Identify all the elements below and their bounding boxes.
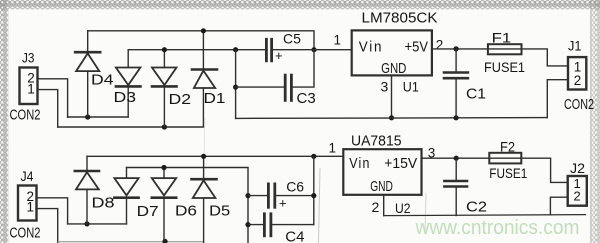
- svg-text:GND: GND: [370, 178, 393, 195]
- wire top rail' (D8/D5 cathodes to U2 Vin): [87, 155, 343, 157]
- wire rail B' (faint bottom rail): [58, 241, 204, 243]
- wire J1 pin2 to ground rail: [547, 80, 568, 118]
- connector J3: [10, 51, 41, 124]
- wire J2 pin2 to ground rail: [550, 197, 567, 215]
- svg-text:C5: C5: [283, 31, 301, 47]
- svg-text:U2: U2: [395, 200, 411, 216]
- svg-text:D1: D1: [204, 90, 226, 107]
- svg-text:2: 2: [436, 38, 444, 53]
- wire C6 right node vertical: [313, 156, 315, 224]
- regulator U2 UA7815: [329, 133, 436, 216]
- wire U1 output to fuse and J1 pin1: [432, 49, 568, 66]
- svg-text:+: +: [275, 48, 283, 63]
- node dot C6 left: [245, 193, 250, 198]
- node dot D6 top on rail2': [161, 165, 166, 170]
- node dot pin3 on ground rail: [389, 115, 394, 120]
- diode D8: [75, 156, 115, 224]
- wire rail2 (D3/D2 cathode rail to C5 left plate): [128, 49, 265, 51]
- svg-text:D5: D5: [209, 203, 230, 220]
- svg-text:2: 2: [574, 73, 582, 88]
- wire U2 pin2 GND down: [383, 195, 385, 216]
- decorative top border strip: [0, 0, 600, 10]
- capacitor C1: [444, 49, 486, 118]
- svg-text:D6: D6: [175, 203, 197, 220]
- svg-text:D4: D4: [91, 71, 114, 88]
- node dot C6 right node on rail': [311, 154, 316, 159]
- wire rail2' (D7/D6 cathode rail to left cap node): [127, 168, 249, 243]
- svg-text:D2: D2: [169, 91, 192, 108]
- svg-text:LM7805CK: LM7805CK: [362, 10, 438, 27]
- wire rail A' (D8/D7 anode rail): [68, 223, 127, 225]
- svg-text:F1: F1: [492, 29, 512, 45]
- node dot D1 cathode on top rail: [201, 28, 206, 33]
- node dot C5/C3 left node: [233, 47, 238, 52]
- svg-text:J3: J3: [22, 51, 35, 66]
- svg-text:C4: C4: [285, 228, 304, 243]
- diode D3: [114, 50, 141, 117]
- node dot D4 anode on rail A: [85, 114, 90, 119]
- svg-text:CON2: CON2: [10, 107, 41, 124]
- svg-text:J2: J2: [570, 160, 585, 176]
- wire rail B (D2/D1 anode rail): [58, 88, 204, 127]
- svg-text:D3: D3: [114, 89, 137, 106]
- svg-text:Vin: Vin: [349, 155, 371, 172]
- node dot D8 anode on rail A': [84, 221, 89, 226]
- svg-text:U1: U1: [403, 78, 419, 94]
- wire J4 pin1 down: [37, 209, 58, 243]
- node dot C1 bottom on ground rail: [454, 115, 459, 120]
- svg-text:CON2: CON2: [10, 224, 41, 241]
- svg-text:www.cntronics.com: www.cntronics.com: [415, 217, 580, 239]
- node dot C2 top: [454, 156, 459, 161]
- node dot C5 right node: [311, 47, 316, 52]
- svg-text:C3: C3: [297, 90, 316, 107]
- svg-text:J1: J1: [568, 37, 582, 53]
- wire top ground rail: [236, 117, 548, 120]
- svg-text:D8: D8: [92, 195, 115, 212]
- node dot D5 cathode on rail': [201, 154, 206, 159]
- svg-text:1: 1: [329, 141, 337, 156]
- svg-text:Vin: Vin: [359, 39, 384, 56]
- node dot C6 right joins vertical: [311, 193, 316, 198]
- svg-text:FUSE1: FUSE1: [484, 59, 525, 75]
- connector J1: [564, 37, 594, 113]
- svg-text:C6: C6: [286, 179, 304, 195]
- wire J3 pin1 down: [38, 90, 58, 127]
- node dot D2 top on rail2: [162, 47, 167, 52]
- svg-text:D7: D7: [137, 203, 159, 220]
- svg-text:C2: C2: [466, 199, 487, 216]
- connector J2: [568, 160, 587, 206]
- diode D1: [192, 31, 226, 107]
- wire J4 pin2 to bridge rail A': [37, 198, 68, 224]
- capacitor C2: [444, 158, 487, 215]
- svg-text:J4: J4: [21, 169, 34, 184]
- svg-text:C1: C1: [466, 86, 486, 103]
- node dot D2 bottom on rail B: [162, 124, 167, 129]
- capacitor C3: [236, 50, 316, 107]
- capacitor C5: [266, 31, 351, 64]
- capacitor C6: [248, 179, 314, 211]
- node dot D6 bottom on rail B': [162, 239, 167, 243]
- svg-text:+: +: [279, 196, 287, 211]
- node dot C3 left: [233, 85, 238, 90]
- connector J4: [10, 169, 41, 241]
- svg-text:3: 3: [381, 78, 389, 94]
- diode D7: [114, 168, 158, 224]
- wire J3 pin2 to bridge rail A: [38, 79, 68, 117]
- wire U1 pin3 GND down: [391, 75, 393, 117]
- svg-text:2: 2: [574, 189, 581, 204]
- svg-text:1: 1: [574, 59, 582, 74]
- svg-text:2: 2: [372, 199, 380, 215]
- wire rail A (D4/D3 anode rail): [68, 116, 129, 118]
- node dot C1 top: [454, 46, 459, 51]
- diode D2: [152, 50, 191, 127]
- regulator U1 LM7805CK: [334, 10, 444, 95]
- svg-text:1: 1: [27, 82, 35, 97]
- svg-text:GND: GND: [381, 60, 406, 77]
- svg-text:+15V: +15V: [384, 155, 417, 172]
- decorative right border strip: [590, 0, 600, 243]
- wire top rail (D4/D1 cathodes to C5 right node): [88, 31, 314, 50]
- svg-text:1: 1: [334, 33, 342, 48]
- svg-text:UA7815: UA7815: [351, 133, 402, 150]
- svg-text:CON2: CON2: [564, 96, 594, 113]
- svg-text:+5V: +5V: [405, 39, 429, 56]
- wire left node vertical x=235.6 (to ground rail): [235, 50, 237, 119]
- diode D4: [75, 31, 113, 117]
- wire U2 output to fuse and J2 pin1: [422, 158, 568, 182]
- svg-text:FUSE1: FUSE1: [489, 165, 527, 181]
- fuse F1: [484, 29, 525, 75]
- decorative left border strip: [0, 0, 9, 243]
- fuse F2: [489, 139, 527, 181]
- node dot C4 left: [245, 222, 250, 227]
- diode D6: [152, 168, 197, 242]
- svg-text:F2: F2: [500, 139, 515, 155]
- wire bottom ground rail: [384, 215, 586, 216]
- svg-text:1: 1: [27, 200, 35, 215]
- faint scan creases: [319, 168, 321, 243]
- diode D5: [192, 156, 231, 243]
- capacitor C4: [248, 214, 314, 243]
